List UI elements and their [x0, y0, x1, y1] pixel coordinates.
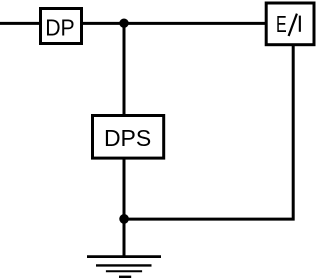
ground: [87, 257, 161, 278]
ground line 1: [87, 255, 161, 258]
ground line 4: [119, 276, 131, 278]
wire: vertical from top junction through DPS down to ground: [123, 23, 126, 257]
block DP: [41, 9, 82, 44]
ground line 3: [106, 270, 142, 272]
label slash of E/I: [289, 14, 297, 36]
block DPS: [93, 116, 164, 159]
svg-text:DP: DP: [45, 15, 75, 41]
node: top junction dot: [119, 19, 128, 28]
svg-text:E: E: [276, 11, 287, 37]
block E/I: [266, 3, 314, 45]
wire: left input to DP and DP to E/I (horizontal): [0, 22, 266, 25]
ground line 2: [96, 264, 152, 266]
label I of E/I: [299, 16, 301, 32]
wire: bottom junction right and up to E/I bottom pin: [123, 44, 294, 219]
svg-text:DPS: DPS: [104, 125, 151, 151]
node: bottom junction dot: [119, 214, 129, 224]
